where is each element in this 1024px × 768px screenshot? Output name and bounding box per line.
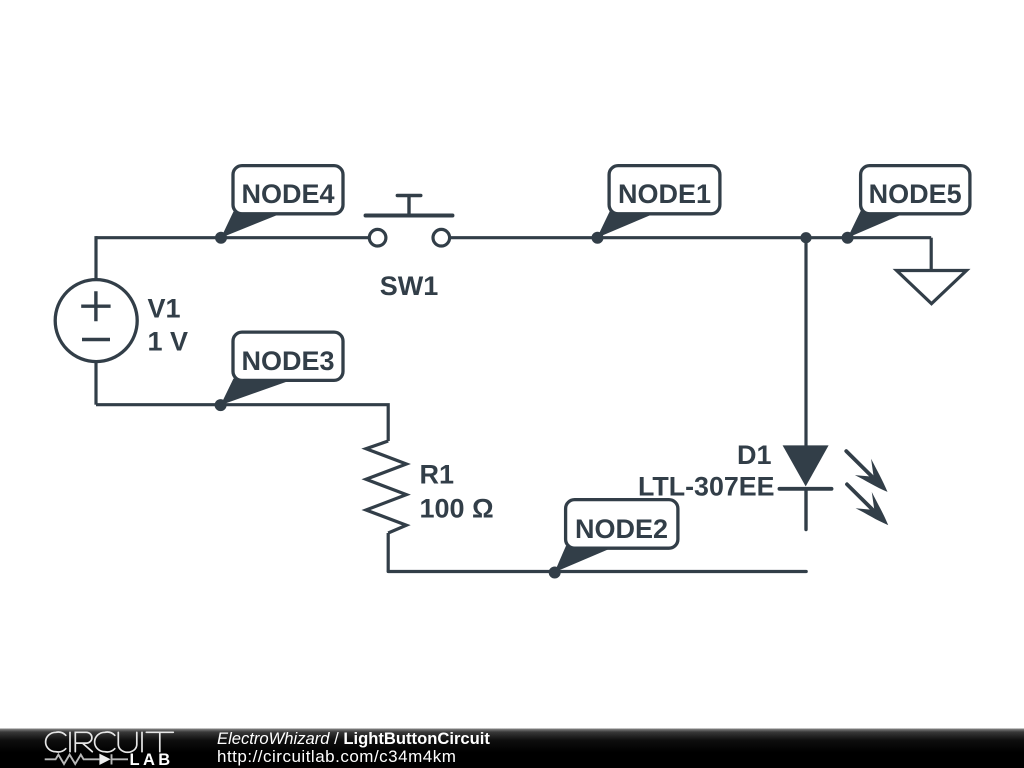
wire V1 top lead [94, 236, 97, 279]
wire SW1 to ground corner [451, 236, 931, 239]
svg-text:LTL-307EE: LTL-307EE [638, 471, 775, 501]
wire top from V1 to SW1 [96, 236, 368, 239]
svg-text:http://circuitlab.com/c34m4km: http://circuitlab.com/c34m4km [217, 747, 456, 766]
wire V1 bottom lead [94, 362, 97, 405]
svg-text:NODE2: NODE2 [575, 514, 668, 544]
CircuitLab logo CIRCUIT [46, 732, 174, 752]
svg-text:NODE3: NODE3 [241, 346, 334, 376]
node NODE1 [592, 166, 720, 244]
footer bar [0, 729, 1024, 768]
ground [897, 238, 967, 304]
CircuitLab logo resistor-diode and LAB [45, 751, 174, 768]
LED light arrow 2 [839, 476, 896, 533]
resistor R1 [366, 441, 494, 572]
LED light arrow 1 [839, 443, 896, 500]
svg-text:NODE1: NODE1 [618, 179, 711, 209]
node NODE3 [215, 332, 343, 411]
switch SW1 [366, 196, 453, 302]
svg-text:100 Ω: 100 Ω [420, 493, 494, 523]
node NODE2 [549, 500, 678, 579]
wire V1 to R1 [96, 405, 388, 441]
wire LED branch [804, 238, 807, 446]
svg-text:LAB: LAB [130, 751, 174, 768]
svg-text:ElectroWhizard / LightButtonCi: ElectroWhizard / LightButtonCircuit [217, 729, 490, 748]
svg-text:NODE5: NODE5 [869, 179, 962, 209]
voltage source V1 [55, 280, 188, 362]
svg-text:SW1: SW1 [380, 271, 439, 301]
svg-text:NODE4: NODE4 [241, 179, 334, 209]
wire bottom from R1 to below LED [388, 570, 806, 573]
node NODE5 [842, 166, 970, 244]
junction dot [800, 232, 811, 243]
svg-text:D1: D1 [737, 440, 772, 470]
svg-text:1 V: 1 V [148, 327, 189, 357]
node NODE4 [215, 166, 343, 244]
svg-text:R1: R1 [420, 460, 455, 490]
svg-text:V1: V1 [148, 294, 181, 324]
LED D1 [638, 440, 832, 530]
